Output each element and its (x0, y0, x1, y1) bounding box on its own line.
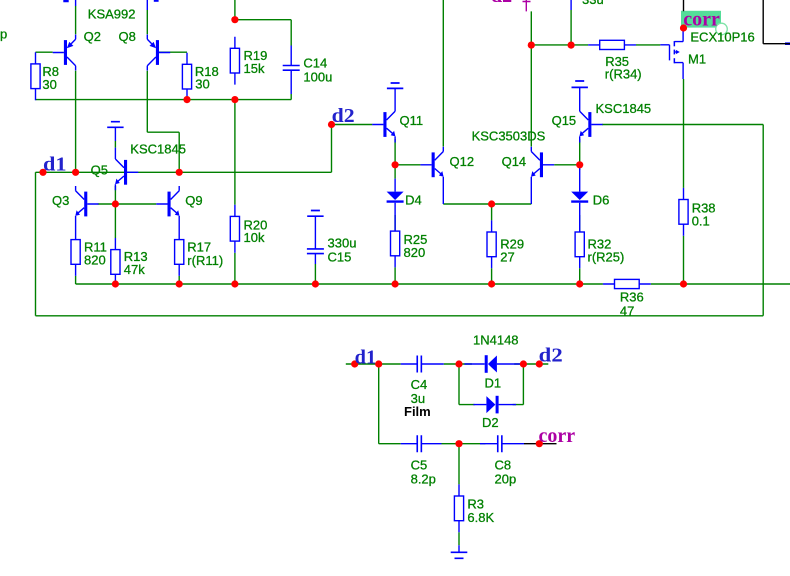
svg-text:d1: d1 (43, 153, 67, 175)
svg-text:d2: d2 (332, 105, 355, 127)
svg-text:KSC1845: KSC1845 (596, 101, 652, 116)
svg-text:D1: D1 (485, 375, 502, 390)
svg-text:D4: D4 (405, 192, 422, 207)
svg-text:C14: C14 (303, 56, 327, 71)
svg-text:6.8K: 6.8K (467, 510, 494, 525)
svg-text:d2: d2 (491, 0, 512, 7)
svg-text:27: 27 (500, 250, 514, 265)
svg-text:corr: corr (539, 425, 576, 447)
svg-text:100u: 100u (303, 70, 332, 85)
svg-text:d2: d2 (539, 345, 563, 367)
svg-text:C5: C5 (411, 458, 428, 473)
svg-text:r(R34): r(R34) (605, 67, 642, 82)
svg-text:d1: d1 (355, 347, 377, 369)
svg-text:0.1: 0.1 (692, 214, 710, 229)
svg-text:Q14: Q14 (502, 154, 527, 169)
svg-text:47: 47 (620, 304, 634, 319)
svg-text:330u: 330u (328, 235, 357, 250)
svg-text:820: 820 (84, 253, 106, 268)
svg-text:Q3: Q3 (52, 193, 69, 208)
svg-text:Film: Film (404, 404, 431, 419)
svg-text:Q9: Q9 (185, 193, 202, 208)
svg-text:1N4148: 1N4148 (473, 332, 519, 347)
svg-text:10k: 10k (244, 230, 265, 245)
svg-text:R36: R36 (620, 290, 644, 305)
svg-text:Q5: Q5 (91, 163, 108, 178)
svg-text:C4: C4 (411, 377, 428, 392)
svg-text:D6: D6 (593, 192, 610, 207)
svg-text:r(R25): r(R25) (588, 250, 625, 265)
svg-text:C8: C8 (495, 458, 512, 473)
svg-text:KSA992: KSA992 (88, 6, 136, 21)
svg-text:8.2p: 8.2p (411, 472, 436, 487)
svg-text:20p: 20p (495, 472, 517, 487)
svg-text:Q2: Q2 (84, 29, 101, 44)
svg-text:C15: C15 (328, 250, 352, 265)
svg-text:Q11: Q11 (400, 113, 424, 128)
svg-text:Q12: Q12 (450, 154, 475, 169)
svg-text:ECX10P16: ECX10P16 (690, 30, 754, 45)
svg-text:33u: 33u (582, 0, 604, 7)
svg-text:KSC3503DS: KSC3503DS (472, 129, 546, 144)
svg-text:r(R11): r(R11) (187, 253, 223, 268)
svg-text:Q8: Q8 (119, 29, 136, 44)
svg-text:KSC1845: KSC1845 (130, 142, 186, 157)
svg-text:30: 30 (195, 77, 209, 92)
svg-text:Q15: Q15 (552, 113, 577, 128)
svg-text:47k: 47k (124, 262, 145, 277)
svg-text:M1: M1 (688, 52, 706, 67)
svg-text:15k: 15k (244, 61, 265, 76)
svg-text:820: 820 (404, 245, 426, 260)
svg-text:corr: corr (683, 8, 720, 30)
svg-text:30: 30 (42, 77, 56, 92)
svg-text:p: p (0, 27, 7, 42)
svg-text:D2: D2 (482, 415, 499, 430)
